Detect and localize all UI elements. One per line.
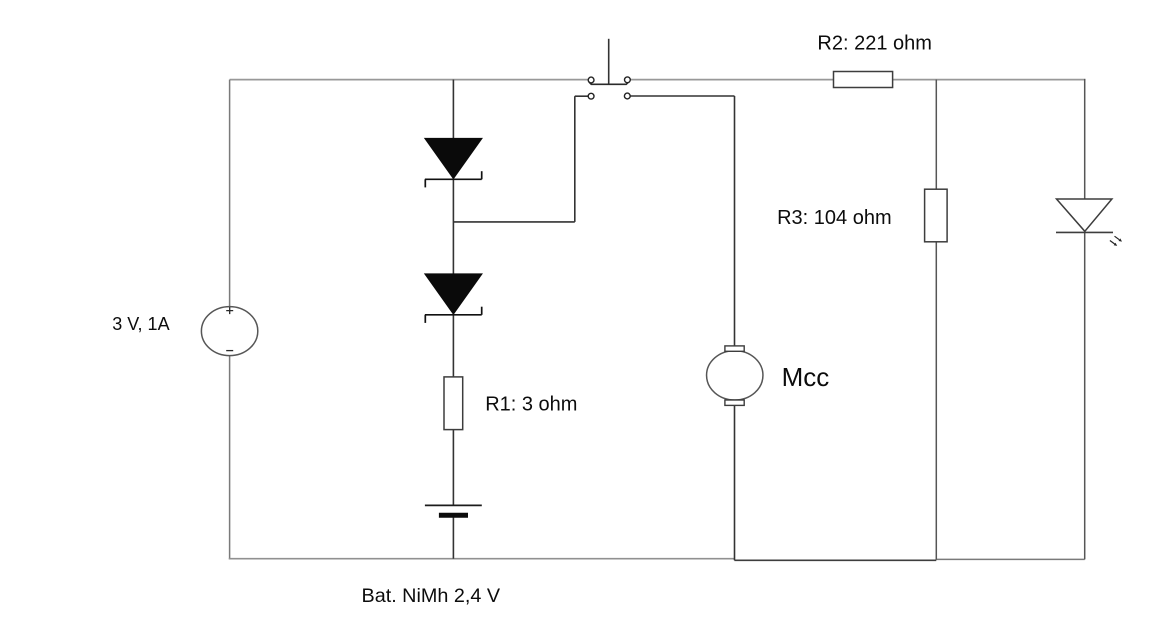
svg-text:R2: 221 ohm: R2: 221 ohm bbox=[817, 32, 932, 54]
svg-text:3 V, 1A: 3 V, 1A bbox=[112, 314, 169, 334]
svg-text:R3: 104 ohm: R3: 104 ohm bbox=[777, 207, 892, 229]
switch S1 actuator stem bbox=[608, 39, 610, 84]
svg-text:R1: 3 ohm: R1: 3 ohm bbox=[485, 394, 577, 416]
wire: bottom bus gray segment (left rail to motor branch) bbox=[229, 558, 735, 560]
switch S1 pole 2 left contact bbox=[588, 93, 594, 99]
svg-text:Mcc: Mcc bbox=[782, 362, 830, 392]
motor M1 (Mcc) bbox=[707, 346, 763, 406]
wire: bottom bus right segment (R3 branch to LED branch) bbox=[936, 558, 1084, 560]
wire: diode branch middle (D1 cathode to D2 anode, through node) bbox=[452, 179, 454, 274]
diode D1 (schottky, cathode down) bbox=[425, 138, 482, 187]
wire: LED branch lower vertical (LED cathode to bottom bus) bbox=[1084, 232, 1086, 559]
switch S1 pole 1 bridge bracket bbox=[589, 82, 629, 84]
wire: node branch horizontal (diode chain node to switch pole 2 left) bbox=[453, 221, 574, 223]
switch S1 pole 1 right contact bbox=[625, 77, 631, 83]
resistor R3 body bbox=[925, 189, 948, 242]
switch S1 pole 2 right contact bbox=[624, 93, 630, 99]
battery B1 (cell) bbox=[425, 505, 482, 515]
wire: left rail lower (source bottom to bottom bus) bbox=[229, 356, 231, 560]
wire: motor branch lower vertical (motor bottom brush to bottom bus) bbox=[734, 405, 736, 560]
svg-text:Bat. NiMh 2,4 V: Bat. NiMh 2,4 V bbox=[362, 585, 501, 607]
wire: motor branch upper vertical (switch to motor top brush) bbox=[734, 96, 736, 347]
wire: diode branch top (top bus down to diode D1 anode) bbox=[452, 80, 454, 139]
wire: R3 branch lower vertical (R3 bottom to bottom bus) bbox=[935, 242, 937, 560]
resistor R1 body bbox=[444, 377, 463, 430]
LED D3 (cathode down) bbox=[1056, 199, 1122, 246]
wire: switch pole 2 left vertical drop bbox=[574, 96, 576, 222]
wire: top bus right segment (switch pole 1 right contact through R2 to top-right corner) bbox=[630, 79, 1085, 81]
wire: switch pole 2 left horizontal stub bbox=[575, 95, 588, 97]
wire: battery negative plate to bottom bus bbox=[452, 516, 454, 559]
wire: R3 branch upper vertical (top bus to R3 top) bbox=[935, 80, 937, 190]
wire: switch pole 2 right horizontal to motor branch bbox=[630, 95, 734, 97]
wire: top bus left segment (battery+ rail to switch pole 1 left contact) bbox=[230, 79, 589, 81]
wire: left rail upper (source top to top bus) bbox=[229, 80, 231, 307]
wire: diode branch (D2 cathode to R1 top) bbox=[452, 315, 454, 377]
diode D2 (schottky, cathode down) bbox=[425, 274, 482, 323]
voltage source V1 circle bbox=[201, 307, 257, 356]
switch S1 pole 1 left contact bbox=[588, 77, 594, 83]
wire: LED branch upper vertical (top-right corner to LED anode) bbox=[1084, 79, 1086, 199]
resistor R2 body bbox=[834, 72, 893, 88]
wire: R1 bottom to battery top plate bbox=[452, 430, 454, 506]
wire: bottom bus dark segment (motor branch to R3 branch) bbox=[734, 559, 936, 561]
